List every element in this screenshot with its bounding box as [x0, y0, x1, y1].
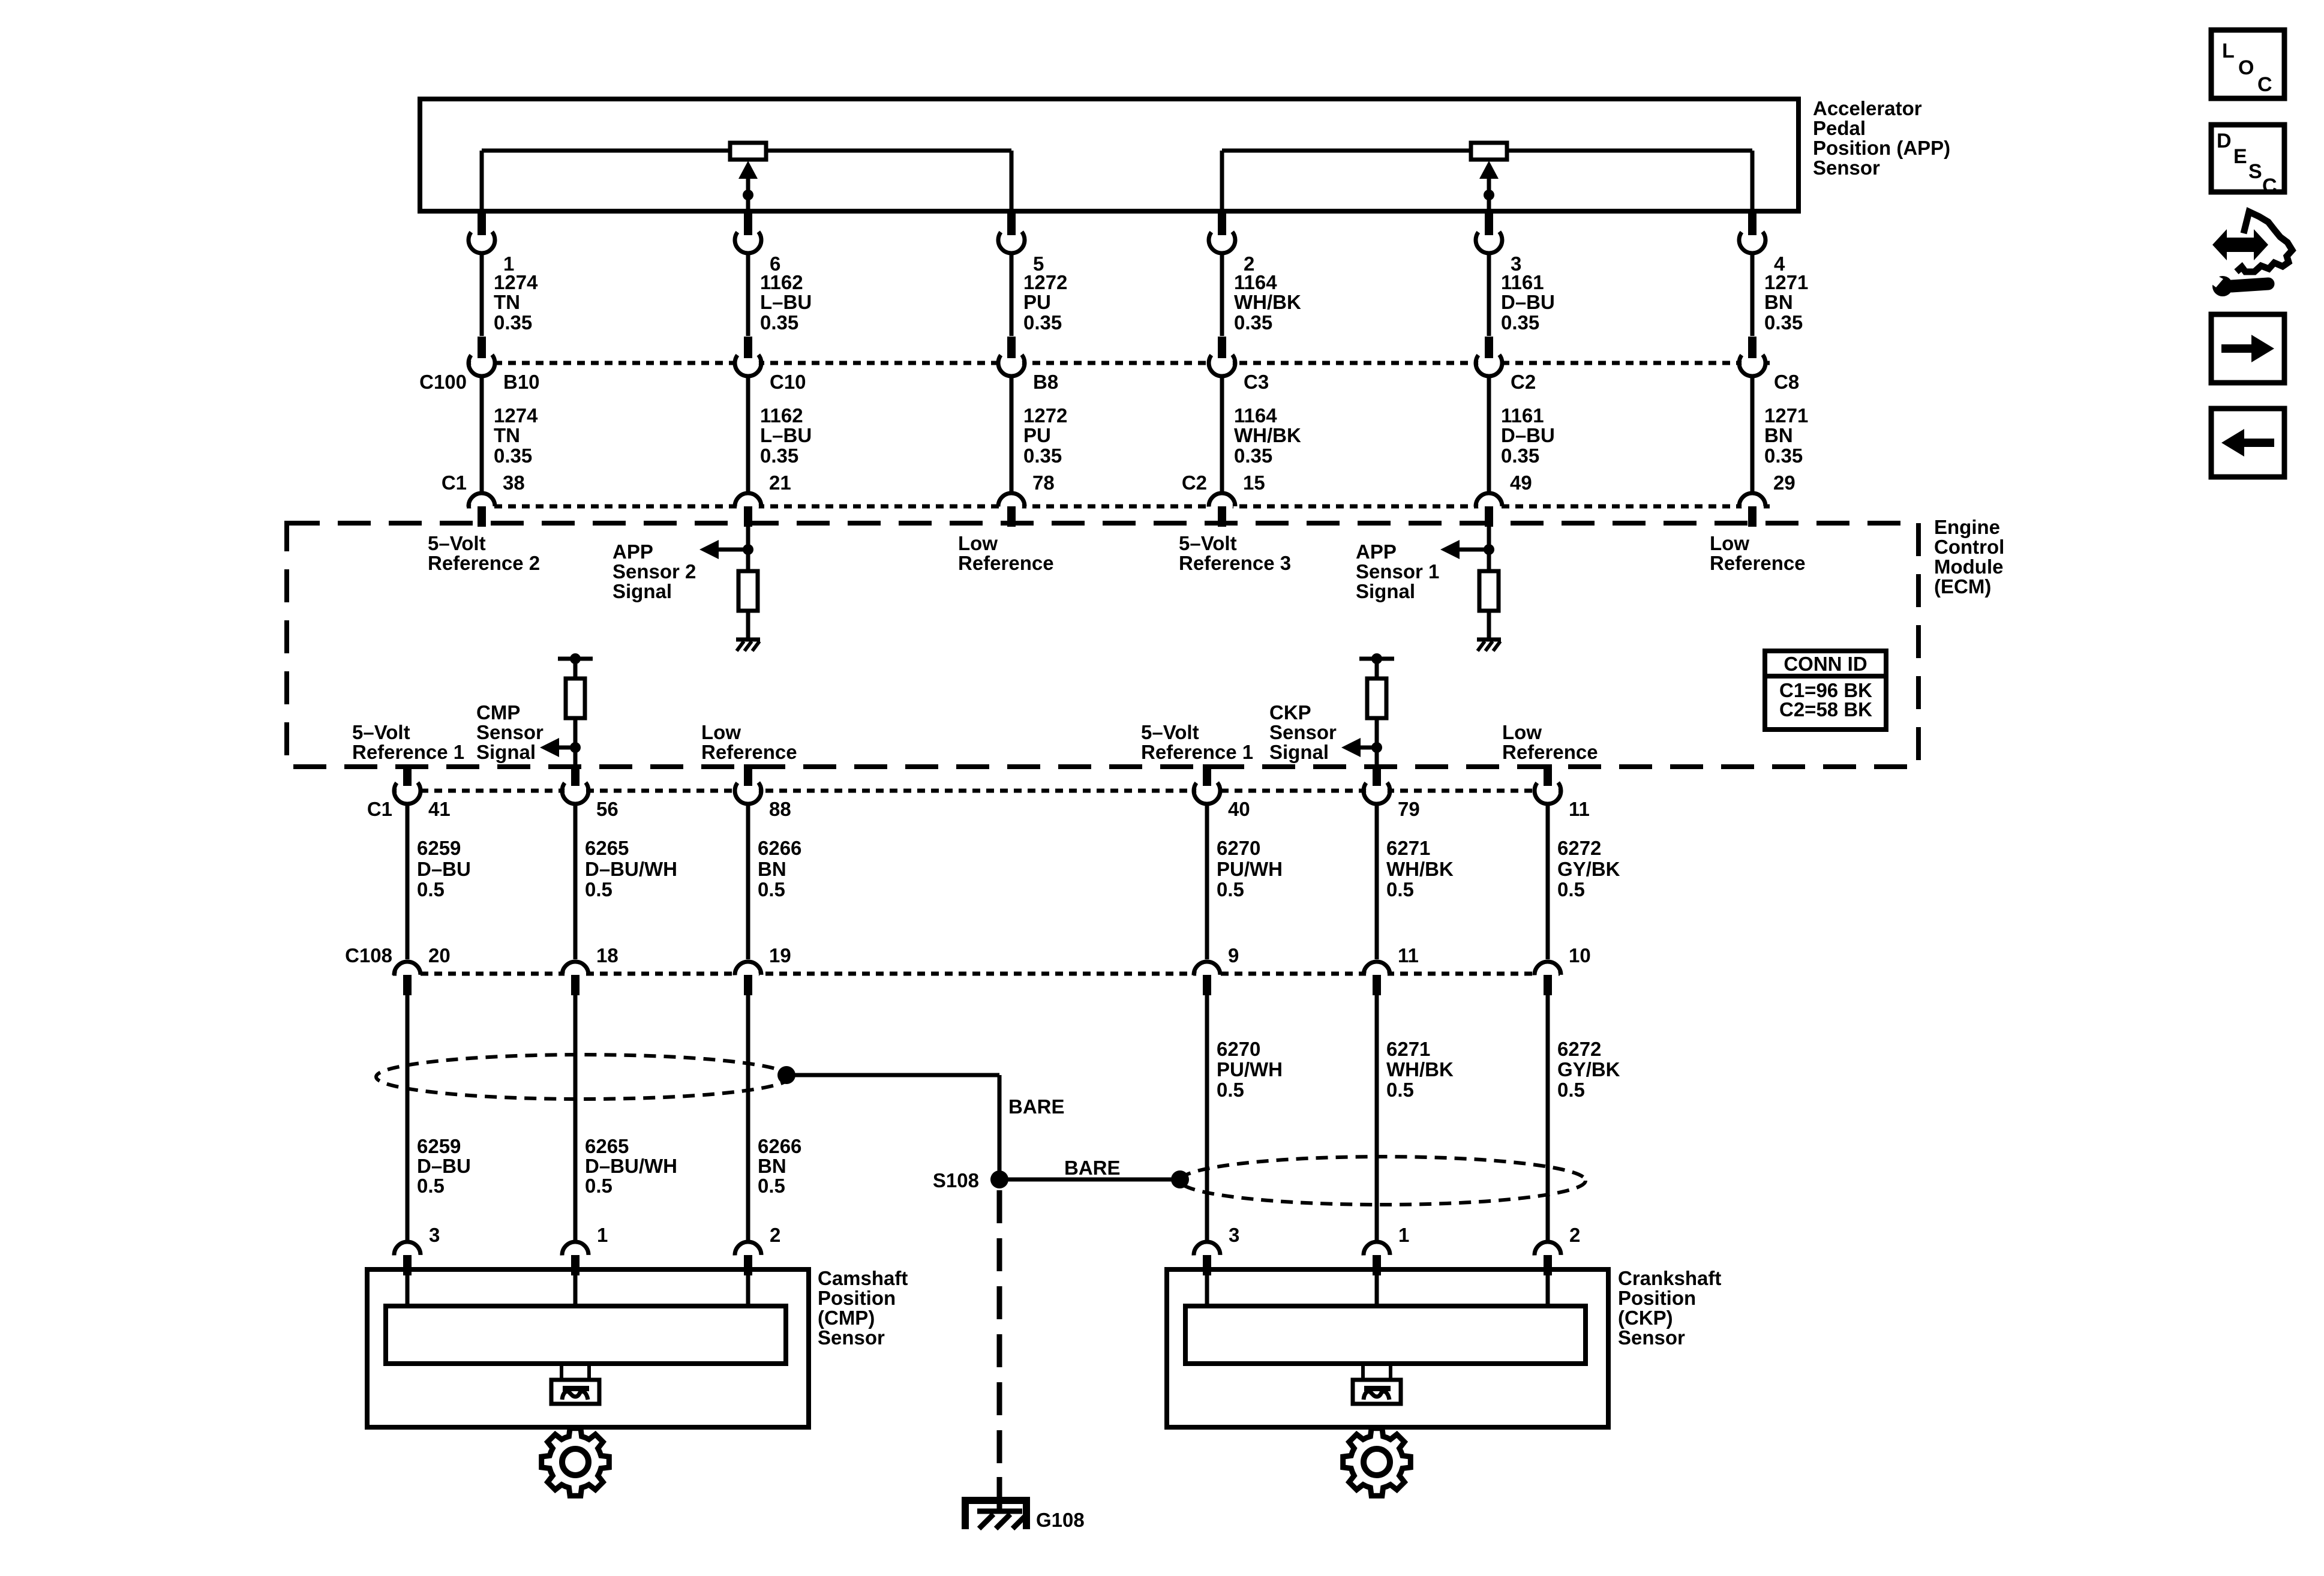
svg-text:1: 1 — [597, 1224, 608, 1246]
svg-text:1161: 1161 — [1501, 271, 1544, 293]
svg-text:Sensor: Sensor — [1813, 157, 1880, 179]
connector designator C2 — [1182, 472, 1207, 494]
connector designator C108 — [345, 944, 392, 966]
wire segment 1162 L–BU — [746, 253, 750, 336]
svg-text:6271: 6271 — [1386, 1038, 1430, 1060]
net label Low Reference (pin 88) — [701, 721, 797, 763]
svg-text:GY/BK: GY/BK — [1557, 1058, 1620, 1080]
wire segment 6259 D–BU — [406, 994, 410, 1242]
svg-text:11: 11 — [1398, 944, 1419, 966]
svg-text:D–BU/WH: D–BU/WH — [585, 858, 677, 880]
pin number 49 — [1510, 472, 1532, 494]
wire label 1274 TN 0.35 — [494, 271, 538, 334]
wire segment 1161 D–BU — [1487, 376, 1491, 493]
wire label 6259 D–BU 0.5 — [417, 837, 471, 900]
svg-text:0.35: 0.35 — [1234, 311, 1272, 334]
pin number 29 — [1773, 472, 1795, 494]
pin number B8 — [1033, 371, 1058, 393]
APP sensor pin 1 connector — [469, 214, 495, 253]
pin number 41 — [428, 798, 451, 820]
svg-text:6271: 6271 — [1386, 837, 1430, 859]
wire label 6266 BN 0.5 — [758, 837, 801, 900]
svg-text:1274: 1274 — [494, 271, 538, 293]
net label 5-Volt Reference 2 — [428, 532, 540, 574]
svg-text:C10: C10 — [770, 371, 806, 393]
svg-text:Camshaft: Camshaft — [818, 1267, 908, 1289]
svg-text:5–Volt: 5–Volt — [1179, 532, 1237, 554]
svg-text:0.35: 0.35 — [494, 311, 532, 334]
connector C108 terminal 9 — [1194, 962, 1220, 995]
svg-text:0.35: 0.35 — [760, 445, 798, 467]
svg-text:L–BU: L–BU — [760, 291, 812, 313]
sensor pin 3 connector — [1194, 1242, 1220, 1275]
wiper arrow APP2 — [738, 161, 758, 211]
pin number 19 — [769, 944, 791, 966]
svg-text:C8: C8 — [1774, 371, 1799, 393]
svg-text:0.5: 0.5 — [1557, 1079, 1585, 1101]
svg-text:21: 21 — [769, 472, 791, 494]
wire segment 6272 GY/BK — [1546, 994, 1550, 1242]
svg-text:0.5: 0.5 — [1386, 1079, 1414, 1101]
pin number 40 — [1228, 798, 1250, 820]
wire label 6266 BN 0.5 — [758, 1135, 801, 1197]
svg-text:6265: 6265 — [585, 837, 629, 859]
pin number 4 — [1774, 253, 1785, 275]
svg-text:D–BU: D–BU — [1501, 291, 1555, 313]
svg-text:PU/WH: PU/WH — [1217, 1058, 1283, 1080]
wire (inside CKP sensor) — [1205, 1274, 1209, 1306]
gear icon (camshaft) — [542, 1428, 609, 1496]
svg-text:5–Volt: 5–Volt — [352, 721, 410, 743]
svg-text:Reference: Reference — [958, 552, 1054, 574]
ground drain wire (dashed) — [997, 1190, 1002, 1511]
net label Low Reference (pin 29) — [1710, 532, 1806, 574]
pin number C2 — [1511, 371, 1536, 393]
svg-text:G108: G108 — [1036, 1509, 1085, 1531]
pin number 1 — [1398, 1224, 1409, 1246]
svg-text:0.5: 0.5 — [417, 1175, 445, 1197]
wire segment 1274 TN — [480, 376, 484, 493]
svg-text:1162: 1162 — [760, 404, 803, 427]
ECM terminal 88 — [735, 764, 761, 804]
svg-text:1: 1 — [1398, 1224, 1409, 1246]
wire — [574, 659, 578, 679]
svg-text:BARE: BARE — [1008, 1095, 1065, 1118]
APP sensor name label — [1813, 97, 1950, 179]
svg-text:Reference 1: Reference 1 — [1141, 741, 1253, 763]
svg-text:Sensor 1: Sensor 1 — [1356, 560, 1439, 583]
APP sensor pin 3 connector — [1476, 214, 1502, 253]
sensor pin 1 connector — [562, 1242, 588, 1275]
pin number C8 — [1774, 371, 1799, 393]
pin number B10 — [503, 371, 540, 393]
svg-text:Reference 2: Reference 2 — [428, 552, 540, 574]
potentiometer APP2 track (wire) — [482, 151, 1011, 211]
svg-text:0.35: 0.35 — [1023, 445, 1062, 467]
LOC icon box — [2211, 30, 2284, 98]
wire segment 1161 D–BU — [1487, 253, 1491, 336]
potentiometer APP1 element — [1471, 143, 1507, 160]
svg-text:49: 49 — [1510, 472, 1532, 494]
junction (shield drain) — [1171, 1170, 1189, 1188]
wire (inside CMP sensor) — [746, 1274, 750, 1306]
CKP sensor box — [1167, 1269, 1608, 1427]
wire (inside CMP sensor) — [574, 1274, 578, 1306]
wiper arrow APP1 — [1479, 161, 1499, 211]
svg-text:0.5: 0.5 — [1217, 1079, 1244, 1101]
svg-text:C100: C100 — [419, 371, 467, 393]
svg-text:D: D — [2217, 130, 2232, 152]
connector C100 terminal C3 — [1209, 337, 1235, 376]
svg-text:Crankshaft: Crankshaft — [1618, 1267, 1721, 1289]
CKP sensor name label — [1618, 1267, 1721, 1349]
svg-text:BN: BN — [758, 858, 786, 880]
APP sensor pin 5 connector — [998, 214, 1025, 253]
pin number 18 — [596, 944, 618, 966]
pin number 79 — [1398, 798, 1420, 820]
wiper junction APP1 — [1484, 190, 1494, 200]
wire — [746, 611, 750, 640]
wire segment 1271 BN — [1750, 253, 1755, 336]
svg-text:0.35: 0.35 — [494, 445, 532, 467]
svg-text:WH/BK: WH/BK — [1234, 291, 1301, 313]
ECM terminal 79 — [1364, 764, 1390, 804]
connector C108 terminal 19 — [735, 962, 761, 995]
svg-text:CONN ID: CONN ID — [1783, 653, 1867, 675]
svg-text:78: 78 — [1032, 472, 1055, 494]
pin number 78 — [1032, 472, 1055, 494]
svg-text:5–Volt: 5–Volt — [428, 532, 486, 554]
svg-text:BN: BN — [1764, 291, 1793, 313]
net label APP Sensor 1 Signal — [1356, 541, 1439, 602]
wire — [1375, 748, 1379, 767]
svg-text:6272: 6272 — [1557, 1038, 1601, 1060]
svg-text:B10: B10 — [503, 371, 540, 393]
svg-text:Low: Low — [701, 721, 741, 743]
wiper junction APP2 — [743, 190, 753, 200]
wire segment 6265 D–BU/WH — [574, 804, 578, 959]
diagnostic icon (arrows and wrench) — [2209, 212, 2292, 296]
svg-text:6266: 6266 — [758, 837, 801, 859]
svg-text:GY/BK: GY/BK — [1557, 858, 1620, 880]
junction — [1371, 742, 1382, 753]
svg-text:D–BU/WH: D–BU/WH — [585, 1155, 677, 1177]
connector C108 terminal 20 — [394, 962, 421, 995]
signal arrow APP Sensor 2 — [699, 540, 748, 559]
ECM terminal 38 — [469, 493, 495, 527]
svg-text:19: 19 — [769, 944, 791, 966]
drain wire — [999, 1178, 1180, 1182]
wire label 1271 BN 0.35 — [1764, 271, 1808, 334]
net label 5-Volt Reference 1 (left) — [352, 721, 464, 763]
wire label 1272 PU 0.35 — [1023, 404, 1067, 467]
svg-text:0.5: 0.5 — [585, 1175, 612, 1197]
svg-text:18: 18 — [596, 944, 618, 966]
svg-text:1274: 1274 — [494, 404, 538, 427]
ECM terminal 11 — [1535, 764, 1561, 804]
hall element legs (CKP) — [1363, 1364, 1391, 1380]
svg-text:0.35: 0.35 — [1764, 311, 1803, 334]
svg-text:Reference: Reference — [1710, 552, 1806, 574]
ground (ECM internal) — [1477, 640, 1501, 651]
wire label 6270 PU/WH 0.5 — [1217, 1038, 1283, 1101]
wire — [1487, 611, 1491, 640]
svg-text:10: 10 — [1569, 944, 1591, 966]
svg-text:88: 88 — [769, 798, 791, 820]
net label CMP Sensor Signal — [476, 701, 544, 763]
ECM terminal 21 — [735, 493, 761, 527]
pin number 9 — [1228, 944, 1239, 966]
svg-text:Low: Low — [1710, 532, 1749, 554]
svg-text:2: 2 — [1569, 1224, 1580, 1246]
wire segment 6270 PU/WH — [1205, 804, 1209, 959]
svg-text:0.35: 0.35 — [1501, 311, 1539, 334]
net label Low Reference (pin 78) — [958, 532, 1054, 574]
svg-text:Low: Low — [1502, 721, 1542, 743]
net label APP Sensor 2 Signal — [612, 541, 696, 602]
sensor pin 1 connector — [1364, 1242, 1390, 1275]
pin number C3 — [1244, 371, 1269, 393]
svg-text:6272: 6272 — [1557, 837, 1601, 859]
wire segment 1272 PU — [1010, 376, 1014, 493]
pin number 1 — [597, 1224, 608, 1246]
svg-text:C108: C108 — [345, 944, 392, 966]
ECM connector row (dashed line) — [467, 505, 1770, 509]
pin number 11 — [1569, 798, 1590, 820]
wire label 1164 WH/BK 0.35 — [1234, 404, 1301, 467]
svg-text:1272: 1272 — [1023, 271, 1067, 293]
wire label 6271 WH/BK 0.5 — [1386, 837, 1454, 900]
pin number 5 — [1033, 253, 1044, 275]
ground G108 — [965, 1500, 1085, 1531]
svg-text:0.35: 0.35 — [1234, 445, 1272, 467]
svg-text:Sensor: Sensor — [476, 721, 544, 743]
signal arrow CKP Sensor — [1341, 738, 1377, 757]
svg-text:Position (APP): Position (APP) — [1813, 137, 1950, 159]
resistor (CKP signal pull-up) — [1367, 679, 1386, 718]
junction — [743, 544, 753, 555]
junction — [570, 653, 581, 664]
pin number 38 — [503, 472, 525, 494]
in-line connector C108 (dashed line) — [393, 972, 1566, 976]
wire label 6270 PU/WH 0.5 — [1217, 837, 1283, 900]
junction — [1371, 653, 1382, 664]
svg-text:Module: Module — [1934, 556, 2003, 578]
svg-text:C3: C3 — [1244, 371, 1269, 393]
ground (ECM internal) — [736, 640, 760, 651]
wire segment 1162 L–BU — [746, 376, 750, 493]
wire (inside CKP sensor) — [1546, 1274, 1550, 1306]
svg-text:0.35: 0.35 — [760, 311, 798, 334]
wire label 6265 D–BU/WH 0.5 — [585, 1135, 677, 1197]
wire label 6272 GY/BK 0.5 — [1557, 837, 1620, 900]
svg-text:40: 40 — [1228, 798, 1250, 820]
svg-text:D–BU: D–BU — [417, 858, 471, 880]
wire label 1271 BN 0.35 — [1764, 404, 1808, 467]
connector C100 terminal B8 — [998, 337, 1025, 376]
svg-text:S: S — [2248, 160, 2262, 183]
svg-text:(ECM): (ECM) — [1934, 575, 1991, 598]
svg-text:38: 38 — [503, 472, 525, 494]
wire label 1164 WH/BK 0.35 — [1234, 271, 1301, 334]
CKP pull-up supply bar (wire) — [1359, 657, 1394, 661]
svg-text:1271: 1271 — [1764, 404, 1808, 427]
svg-text:0.5: 0.5 — [758, 1175, 785, 1197]
svg-text:6270: 6270 — [1217, 1038, 1260, 1060]
svg-text:PU: PU — [1023, 424, 1051, 446]
APP sensor pin 2 connector — [1209, 214, 1235, 253]
svg-text:Reference: Reference — [701, 741, 797, 763]
pin number 3 — [1511, 253, 1521, 275]
wire — [1375, 659, 1379, 679]
pin number 2 — [770, 1224, 780, 1246]
svg-text:Sensor: Sensor — [818, 1326, 885, 1349]
svg-text:Sensor 2: Sensor 2 — [612, 560, 696, 583]
hall element legs (CMP) — [562, 1364, 589, 1380]
sensor pin 2 connector — [735, 1242, 761, 1275]
svg-text:S108: S108 — [933, 1169, 979, 1191]
svg-text:E: E — [2233, 145, 2247, 168]
svg-text:BN: BN — [1764, 424, 1793, 446]
svg-text:2: 2 — [770, 1224, 780, 1246]
pin number 6 — [770, 253, 780, 275]
svg-text:TN: TN — [494, 424, 520, 446]
svg-text:Sensor: Sensor — [1618, 1326, 1685, 1349]
svg-text:L–BU: L–BU — [760, 424, 812, 446]
svg-text:Control: Control — [1934, 536, 2004, 558]
connector C108 terminal 11 — [1364, 962, 1390, 995]
gear icon (crankshaft) — [1343, 1428, 1411, 1496]
svg-text:PU/WH: PU/WH — [1217, 858, 1283, 880]
APP sensor pin 6 connector — [735, 214, 761, 253]
svg-text:Accelerator: Accelerator — [1813, 97, 1922, 119]
wire segment 6266 BN — [746, 804, 750, 959]
wire label 1272 PU 0.35 — [1023, 271, 1067, 334]
wire label 6259 D–BU 0.5 — [417, 1135, 471, 1197]
ECM terminal 49 — [1476, 493, 1502, 527]
wire segment 1164 WH/BK — [1220, 253, 1224, 336]
svg-text:0.5: 0.5 — [1386, 878, 1414, 900]
svg-text:0.5: 0.5 — [1217, 878, 1244, 900]
wire label 6265 D–BU/WH 0.5 — [585, 837, 677, 900]
wire label 1161 D–BU 0.35 — [1501, 404, 1555, 467]
wire segment 1274 TN — [480, 253, 484, 336]
wire label 1162 L–BU 0.35 — [760, 271, 812, 334]
signal arrow APP Sensor 1 — [1440, 540, 1489, 559]
svg-text:3: 3 — [429, 1224, 440, 1246]
forward arrow icon box — [2211, 314, 2284, 383]
wire — [1375, 718, 1379, 748]
svg-text:Signal: Signal — [1356, 580, 1415, 602]
splice S108 — [933, 1169, 1008, 1191]
wire label BARE — [1008, 1095, 1065, 1118]
ECM terminal 78 — [998, 493, 1025, 527]
svg-text:1162: 1162 — [760, 271, 803, 293]
APP sensor box — [420, 99, 1798, 211]
svg-text:Signal: Signal — [476, 741, 536, 763]
ECM lower connector row (dashed line) — [393, 789, 1566, 793]
svg-text:3: 3 — [1229, 1224, 1239, 1246]
svg-text:Low: Low — [958, 532, 998, 554]
connector designator C1 (lower) — [367, 798, 392, 820]
wire — [574, 748, 578, 767]
hall element (CMP) — [551, 1380, 599, 1404]
sensor pin 2 connector — [1535, 1242, 1561, 1275]
wire — [574, 718, 578, 748]
ECM terminal 15 — [1209, 493, 1235, 527]
wire APP sensor 2 signal into ECM — [746, 526, 750, 571]
resistor (CMP signal pull-up) — [566, 679, 585, 718]
pin number 88 — [769, 798, 791, 820]
CKP shield (dashed ellipse) — [1180, 1157, 1586, 1205]
svg-text:C: C — [2257, 73, 2272, 96]
svg-text:5–Volt: 5–Volt — [1141, 721, 1199, 743]
svg-text:D–BU: D–BU — [417, 1155, 471, 1177]
svg-text:WH/BK: WH/BK — [1234, 424, 1301, 446]
in-line connector C100 (dashed line) — [467, 361, 1770, 365]
wire label 6271 WH/BK 0.5 — [1386, 1038, 1454, 1101]
wire segment 6265 D–BU/WH — [574, 994, 578, 1242]
svg-text:O: O — [2238, 56, 2254, 79]
svg-text:1272: 1272 — [1023, 404, 1067, 427]
junction — [570, 742, 581, 753]
net label 5-Volt Reference 3 — [1179, 532, 1291, 574]
svg-text:Sensor: Sensor — [1269, 721, 1337, 743]
svg-text:B8: B8 — [1033, 371, 1058, 393]
svg-text:Reference 1: Reference 1 — [352, 741, 464, 763]
wire segment 1271 BN — [1750, 376, 1755, 493]
junction (shield drain) — [777, 1066, 795, 1084]
connector designator C1 — [442, 472, 467, 494]
wire label 6272 GY/BK 0.5 — [1557, 1038, 1620, 1101]
svg-text:0.35: 0.35 — [1764, 445, 1803, 467]
svg-text:WH/BK: WH/BK — [1386, 858, 1454, 880]
svg-text:1164: 1164 — [1234, 271, 1277, 293]
net label 5-Volt Reference 1 (right) — [1141, 721, 1253, 763]
svg-text:0.5: 0.5 — [417, 878, 445, 900]
potentiometer APP2 element — [730, 143, 766, 160]
svg-text:(CMP): (CMP) — [818, 1307, 875, 1329]
svg-text:Reference: Reference — [1502, 741, 1598, 763]
svg-text:C2: C2 — [1182, 472, 1207, 494]
svg-text:6259: 6259 — [417, 1135, 461, 1157]
drain wire — [786, 1075, 999, 1179]
wire label 1274 TN 0.35 — [494, 404, 538, 467]
wire APP sensor 1 signal into ECM — [1487, 526, 1491, 571]
svg-text:CKP: CKP — [1269, 701, 1311, 724]
wire label 1161 D–BU 0.35 — [1501, 271, 1555, 334]
svg-text:0.5: 0.5 — [585, 878, 612, 900]
svg-text:Engine: Engine — [1934, 516, 2000, 538]
pin number 11 — [1398, 944, 1419, 966]
svg-text:15: 15 — [1243, 472, 1265, 494]
svg-text:0.35: 0.35 — [1023, 311, 1062, 334]
ECM terminal 56 — [562, 764, 588, 804]
pin number C10 — [770, 371, 806, 393]
pin number 21 — [769, 472, 791, 494]
svg-text:BARE: BARE — [1064, 1157, 1121, 1179]
wire label BARE — [1064, 1157, 1121, 1179]
ECM terminal 41 — [394, 764, 421, 804]
net label CKP Sensor Signal — [1269, 701, 1337, 763]
pin number 1 — [503, 253, 514, 275]
svg-text:6259: 6259 — [417, 837, 461, 859]
CMP sensor box — [367, 1269, 809, 1427]
pin number 20 — [428, 944, 451, 966]
wire segment 6271 WH/BK — [1375, 994, 1379, 1242]
connector C100 terminal C10 — [735, 337, 761, 376]
svg-text:Position: Position — [818, 1287, 896, 1309]
